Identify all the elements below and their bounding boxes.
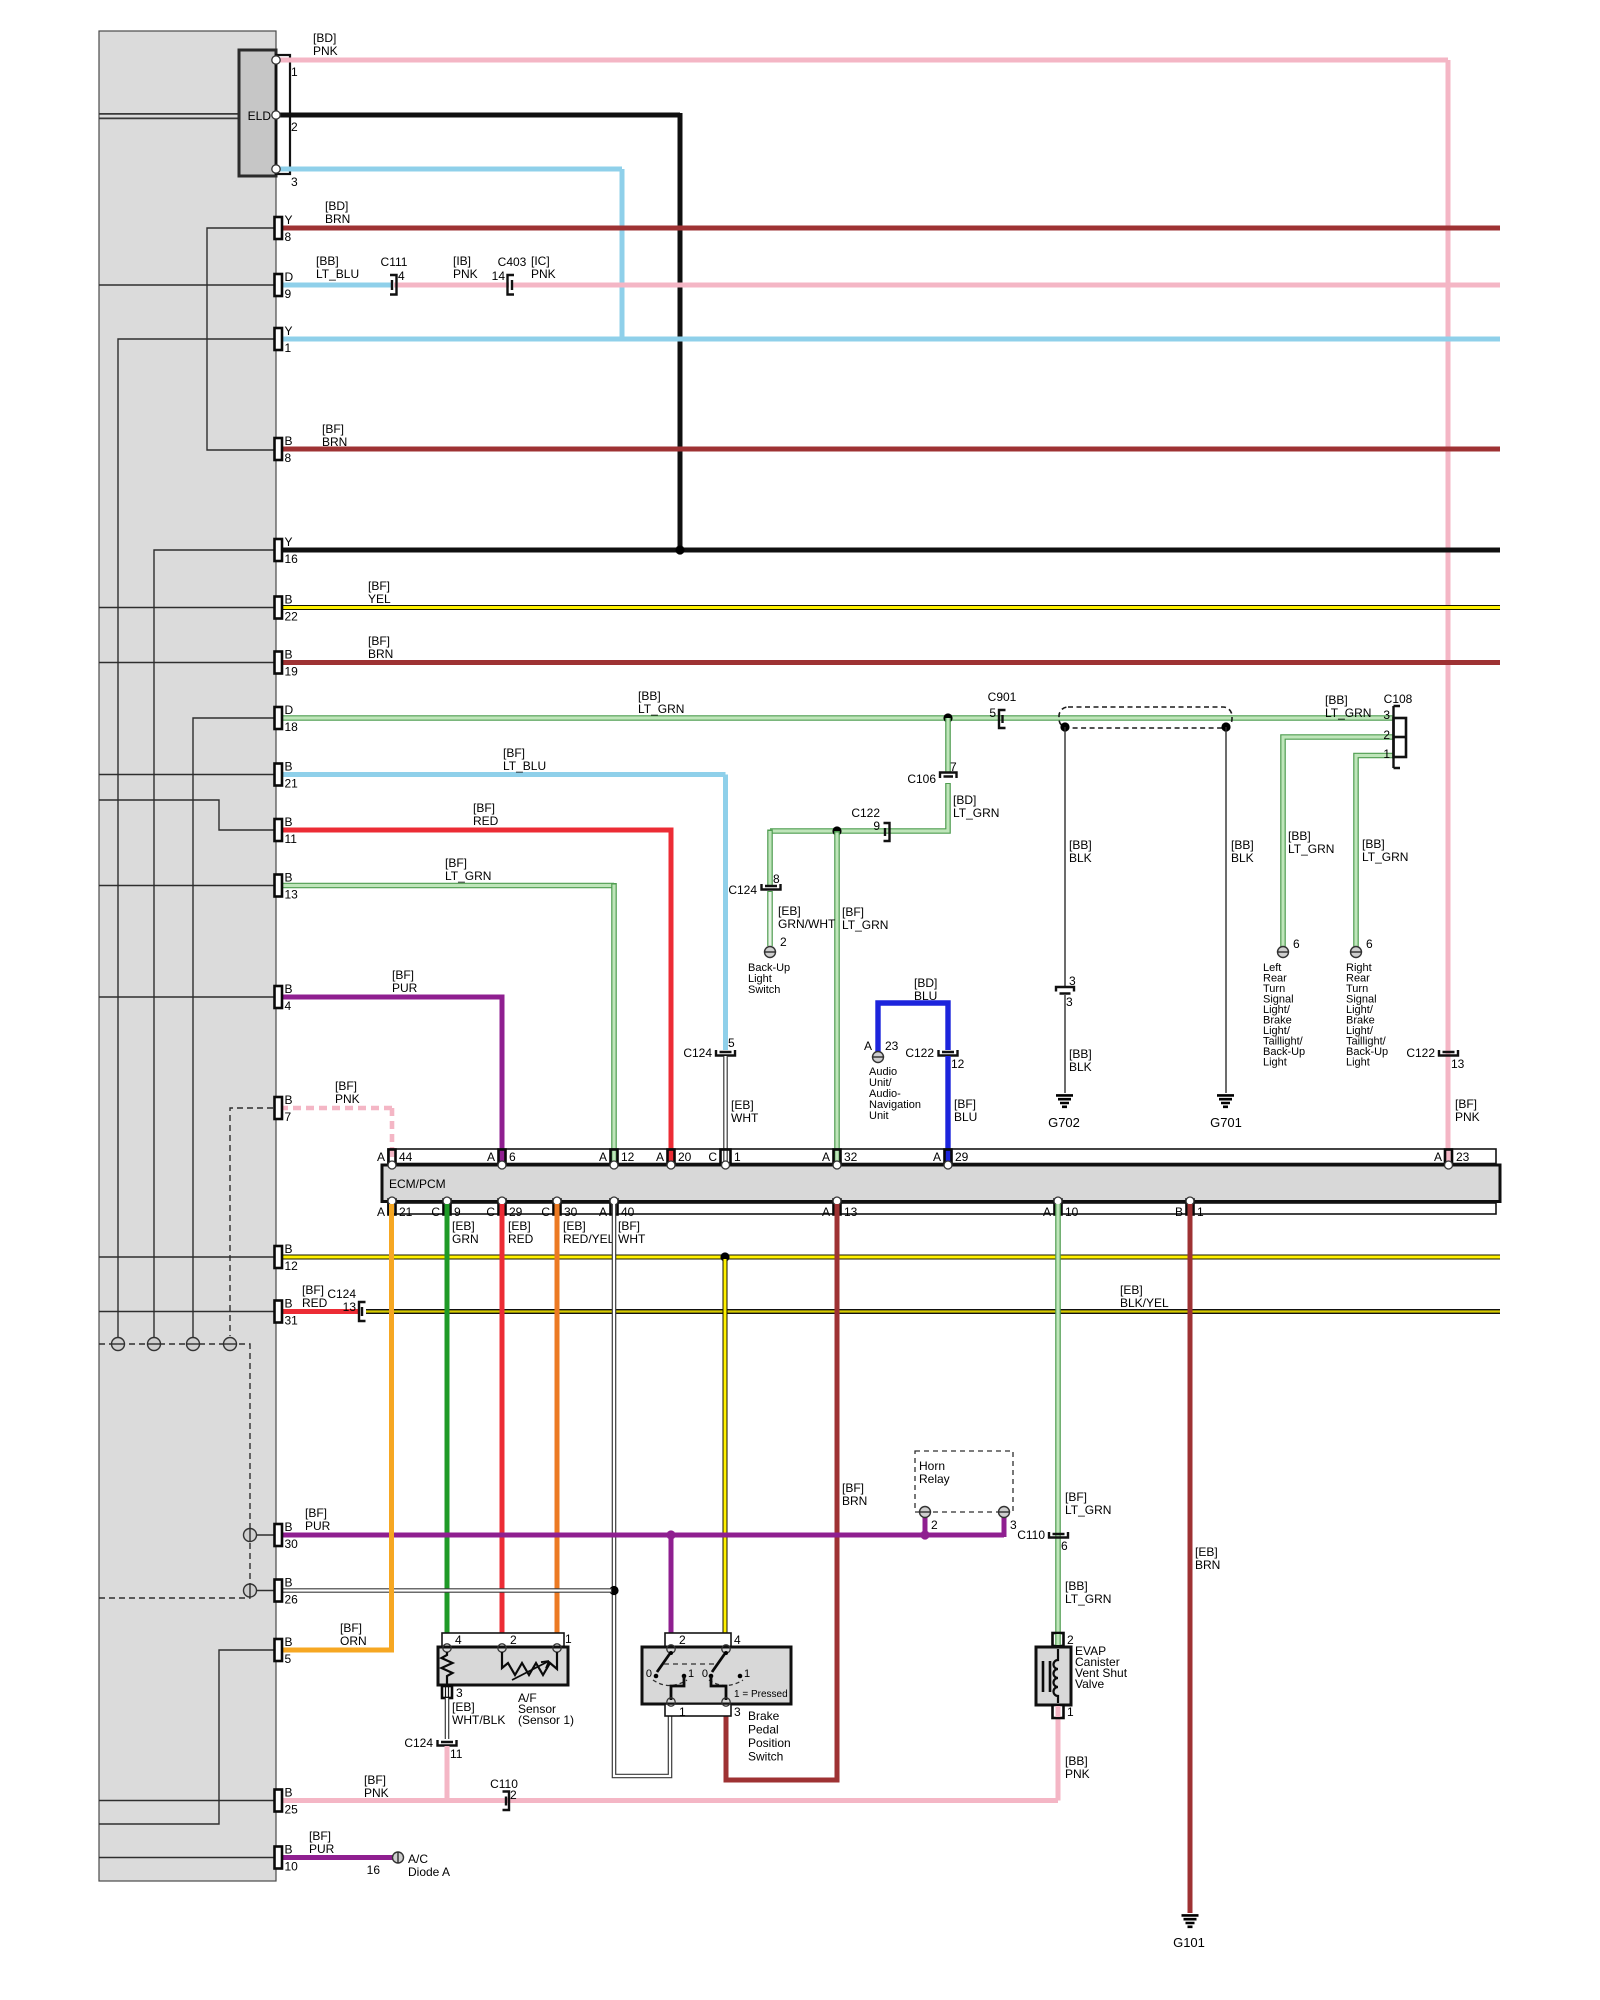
wire [BF] PUR row B30 bbox=[280, 1533, 1004, 1538]
connector C124 pin 13 B31 bbox=[327, 1287, 365, 1321]
switch lever left bbox=[657, 1651, 673, 1672]
Back-Up Light Switch bbox=[748, 962, 790, 996]
svg-text:LT_GRN: LT_GRN bbox=[445, 869, 491, 883]
svg-text:[EB]: [EB] bbox=[452, 1219, 475, 1233]
connector C124 pin 11 bbox=[404, 1736, 462, 1761]
label [BF] RED B31 bbox=[302, 1283, 328, 1310]
ELD pin 1 bbox=[272, 56, 298, 79]
svg-text:C: C bbox=[541, 1205, 550, 1219]
wire [IB] PNK D9 mid bbox=[394, 283, 509, 288]
svg-text:PNK: PNK bbox=[335, 1092, 360, 1106]
wire [BD] BLU audio loop bbox=[878, 1003, 948, 1057]
svg-text:B: B bbox=[285, 1242, 293, 1256]
svg-text:2: 2 bbox=[1383, 728, 1390, 742]
svg-text:7: 7 bbox=[285, 1110, 292, 1124]
svg-text:25: 25 bbox=[285, 1803, 299, 1817]
svg-text:BLK: BLK bbox=[1069, 1060, 1092, 1074]
svg-text:[BF]: [BF] bbox=[954, 1097, 976, 1111]
svg-text:PNK: PNK bbox=[453, 267, 478, 281]
svg-text:18: 18 bbox=[285, 720, 299, 734]
svg-text:[BF]: [BF] bbox=[309, 1829, 331, 1843]
svg-text:6: 6 bbox=[1293, 937, 1300, 951]
wire internal dashed bus row bbox=[99, 1344, 250, 1598]
label [BF] YEL bbox=[368, 579, 391, 606]
pin B11 bbox=[275, 815, 298, 846]
wire [EB] BLK_YEL row B31 bbox=[366, 1309, 1500, 1314]
svg-text:[EB]: [EB] bbox=[731, 1098, 754, 1112]
wire [BF] ORN A21 to B5 bbox=[280, 1204, 392, 1650]
pin A13 bbox=[822, 1197, 858, 1219]
label [BB] BLK left bbox=[1069, 838, 1092, 865]
node terminal A_C diode pin 16 bbox=[367, 1852, 404, 1878]
EVAP pin 2 bbox=[1053, 1633, 1075, 1647]
svg-text:C901: C901 bbox=[988, 690, 1017, 704]
svg-text:9: 9 bbox=[873, 819, 880, 833]
wire [IC] PNK D9 right bbox=[511, 283, 1500, 288]
svg-text:12: 12 bbox=[951, 1057, 965, 1071]
svg-text:[BF]: [BF] bbox=[473, 801, 495, 815]
label [BF] LT_BLU bbox=[503, 746, 546, 773]
svg-text:8: 8 bbox=[285, 230, 292, 244]
svg-text:YEL: YEL bbox=[368, 592, 391, 606]
wire [BF] LT_BLU row B21 bbox=[280, 772, 726, 777]
ECM top connector bar bbox=[388, 1149, 1496, 1164]
connector C108 bbox=[1383, 692, 1412, 768]
A_F sensor pin 3 bbox=[442, 1686, 463, 1700]
label [BF] LT_GRN A10 bbox=[1065, 1490, 1111, 1517]
svg-text:RED: RED bbox=[508, 1232, 534, 1246]
wire PUR stub relay pin3 bbox=[1002, 1516, 1007, 1537]
wire BLK row Y16 bbox=[280, 548, 1500, 553]
label [EB] BRN bbox=[1195, 1545, 1220, 1572]
svg-text:Light: Light bbox=[1263, 1057, 1287, 1069]
svg-text:19: 19 bbox=[285, 665, 299, 679]
svg-text:Switch: Switch bbox=[748, 1750, 783, 1764]
svg-text:[BB]: [BB] bbox=[1069, 838, 1092, 852]
svg-text:1: 1 bbox=[1197, 1205, 1204, 1219]
svg-text:10: 10 bbox=[1065, 1205, 1079, 1219]
wire internal D18 feed bbox=[193, 718, 283, 1337]
wire [BB] BLK to G702 bbox=[1064, 995, 1066, 1093]
svg-text:6: 6 bbox=[1366, 937, 1373, 951]
node terminal horn relay pin 2 bbox=[919, 1507, 938, 1533]
pin B22 bbox=[275, 593, 299, 624]
wire [BF] WHT A40 down bbox=[614, 1204, 670, 1776]
node loop terminal Y1 bbox=[111, 1338, 125, 1351]
svg-text:[BB]: [BB] bbox=[1069, 1047, 1092, 1061]
svg-text:B: B bbox=[285, 1297, 293, 1311]
svg-text:9: 9 bbox=[285, 287, 292, 301]
svg-text:[BB]: [BB] bbox=[638, 689, 661, 703]
svg-text:BLK/YEL: BLK/YEL bbox=[1120, 1296, 1169, 1310]
wire internal B13 feed bbox=[99, 885, 283, 887]
pin B30 bbox=[275, 1520, 299, 1551]
svg-text:1: 1 bbox=[734, 1150, 741, 1164]
wire internal B31 feed bbox=[99, 1311, 283, 1313]
label [BB] PNK bbox=[1065, 1754, 1090, 1781]
svg-text:3: 3 bbox=[734, 1705, 741, 1719]
svg-text:13: 13 bbox=[1451, 1057, 1465, 1071]
svg-text:0: 0 bbox=[646, 1668, 652, 1680]
svg-text:B: B bbox=[285, 1520, 293, 1534]
wire [BB] LT_GRN C108 pin1 branch bbox=[1356, 756, 1393, 948]
svg-text:16: 16 bbox=[367, 1863, 381, 1877]
wire internal B22 feed bbox=[99, 607, 283, 609]
svg-text:C: C bbox=[486, 1205, 495, 1219]
switch lever right bbox=[712, 1651, 728, 1672]
ELD connector bracket bbox=[276, 55, 290, 174]
wire PUR stub relay pin2 bbox=[923, 1516, 928, 1535]
svg-text:C: C bbox=[431, 1205, 440, 1219]
svg-text:B: B bbox=[285, 871, 293, 885]
node terminal audio unit A23 bbox=[864, 1039, 899, 1063]
svg-text:12: 12 bbox=[621, 1150, 635, 1164]
wire [BF] RED row B31 bbox=[280, 1309, 359, 1314]
svg-text:A: A bbox=[487, 1150, 495, 1164]
label [EB] GRN_WHT bbox=[778, 904, 836, 931]
wire internal B25 feed bbox=[99, 1800, 283, 1802]
label [BF] PNK B7 bbox=[335, 1079, 360, 1106]
pin Y8 bbox=[275, 213, 293, 244]
label [BB] BLK right bbox=[1231, 838, 1254, 865]
label [BF] PUR B10 bbox=[309, 1829, 335, 1856]
svg-text:[BF]: [BF] bbox=[322, 422, 344, 436]
label [BF] PUR B4 bbox=[392, 968, 418, 995]
svg-text:Valve: Valve bbox=[1075, 1677, 1104, 1691]
node junction LT_GRN to C106 bbox=[943, 713, 952, 722]
svg-text:B: B bbox=[285, 434, 293, 448]
svg-text:5: 5 bbox=[728, 1036, 735, 1050]
wire LT_BLU ELD pin3 bbox=[278, 167, 622, 172]
svg-text:21: 21 bbox=[285, 777, 299, 791]
wire WHT row B26 bbox=[280, 1588, 612, 1593]
pin B1 bbox=[1175, 1197, 1204, 1219]
node terminal back-up light switch pin 2 bbox=[764, 935, 787, 958]
svg-text:[BB]: [BB] bbox=[1065, 1579, 1088, 1593]
svg-text:12: 12 bbox=[285, 1259, 299, 1273]
pin B5 bbox=[275, 1635, 293, 1666]
label [BB] BLK lower bbox=[1069, 1047, 1092, 1074]
svg-text:Y: Y bbox=[285, 535, 293, 549]
wire YEL junction to switch pin4 bbox=[723, 1259, 728, 1646]
svg-text:4: 4 bbox=[285, 999, 292, 1013]
connector 3-3 inline bbox=[1056, 974, 1076, 1009]
ELD unit box bbox=[239, 50, 276, 176]
svg-text:LT_GRN: LT_GRN bbox=[842, 918, 888, 932]
pin C29 bbox=[486, 1197, 522, 1219]
svg-text:23: 23 bbox=[1456, 1150, 1470, 1164]
resistor heater element bbox=[502, 1652, 557, 1680]
svg-text:Unit: Unit bbox=[869, 1110, 889, 1122]
connector C106 pin 7 bbox=[907, 760, 957, 786]
svg-text:44: 44 bbox=[399, 1150, 413, 1164]
wire [BF] LT_GRN drop to A12 bbox=[611, 883, 617, 1162]
svg-text:B: B bbox=[285, 982, 293, 996]
ECM bottom connector bar bbox=[388, 1203, 1496, 1214]
wire [BD] BRN row Y8 bbox=[280, 226, 1500, 231]
svg-text:31: 31 bbox=[285, 1314, 299, 1328]
wire internal Y1 feed bbox=[118, 339, 283, 1337]
svg-text:1: 1 bbox=[291, 65, 298, 79]
svg-text:10: 10 bbox=[285, 1860, 299, 1874]
svg-text:A: A bbox=[656, 1150, 664, 1164]
node junction YEL B12 bbox=[720, 1252, 729, 1261]
ELD pin 2 bbox=[272, 111, 298, 134]
pin B7 bbox=[275, 1093, 293, 1124]
wire [EB] GRN_WHT drop to C124-8 bbox=[767, 830, 773, 886]
svg-text:29: 29 bbox=[509, 1205, 523, 1219]
resistor sensing element bbox=[442, 1652, 453, 1684]
label [BF] ORN bbox=[340, 1621, 367, 1648]
wire [BF] BRN A13 down bbox=[726, 1204, 837, 1780]
svg-text:3: 3 bbox=[1066, 995, 1073, 1009]
svg-text:Position: Position bbox=[748, 1736, 791, 1750]
label [EB] WHT_BLK bbox=[452, 1700, 505, 1727]
label [BD] BRN bbox=[325, 199, 350, 226]
A_F sensor top bar bbox=[442, 1633, 564, 1647]
svg-text:[EB]: [EB] bbox=[563, 1219, 586, 1233]
svg-text:[BF]: [BF] bbox=[618, 1219, 640, 1233]
A_F sensor body bbox=[438, 1647, 568, 1685]
brake switch pin 4 bbox=[722, 1633, 741, 1653]
wire internal B7 dashed link bbox=[230, 1108, 283, 1336]
label [BF] BRN B19 bbox=[368, 634, 393, 661]
svg-text:3: 3 bbox=[1069, 974, 1076, 988]
svg-text:[EB]: [EB] bbox=[508, 1219, 531, 1233]
wire PNK C124-11 to B25 row bbox=[445, 1746, 450, 1801]
wire [EB] RED C29 to sensor pin2 bbox=[500, 1204, 505, 1646]
node terminal left rear lamp pin 6 bbox=[1277, 937, 1300, 958]
svg-text:13: 13 bbox=[844, 1205, 858, 1219]
svg-text:A: A bbox=[377, 1205, 385, 1219]
svg-text:ORN: ORN bbox=[340, 1634, 367, 1648]
wire internal B26 stub bbox=[256, 1590, 283, 1592]
svg-text:1: 1 bbox=[688, 1668, 694, 1680]
connector C122 pin 13 bbox=[1406, 1046, 1464, 1071]
svg-text:5: 5 bbox=[989, 706, 996, 720]
wire BLK vertical to Y16 row bbox=[678, 113, 683, 550]
svg-text:4: 4 bbox=[734, 1633, 741, 1647]
wire [BD] PNK vertical to A23 bbox=[1446, 60, 1451, 1161]
pin C1 bbox=[708, 1150, 741, 1170]
svg-text:[BF]: [BF] bbox=[842, 905, 864, 919]
svg-text:3: 3 bbox=[1010, 1518, 1017, 1532]
svg-text:[BB]: [BB] bbox=[1362, 837, 1385, 851]
pin B31 bbox=[275, 1297, 299, 1328]
pin A6 bbox=[487, 1150, 516, 1170]
svg-text:B: B bbox=[285, 1843, 293, 1857]
svg-text:B: B bbox=[285, 648, 293, 662]
A_C Diode A label bbox=[408, 1852, 450, 1879]
svg-text:1: 1 bbox=[679, 1705, 686, 1719]
svg-text:C: C bbox=[708, 1150, 717, 1164]
svg-text:ELD: ELD bbox=[248, 109, 272, 123]
svg-text:C108: C108 bbox=[1384, 692, 1413, 706]
svg-text:LT_GRN: LT_GRN bbox=[1325, 706, 1371, 720]
node terminal right rear lamp pin 6 bbox=[1350, 937, 1373, 958]
svg-text:BRN: BRN bbox=[1195, 1558, 1220, 1572]
wire [BB] LT_GRN row D18 bbox=[280, 715, 1393, 721]
wire internal B5 feed bbox=[99, 1650, 283, 1824]
wire internal B21 feed bbox=[99, 774, 283, 776]
svg-text:C122: C122 bbox=[905, 1046, 934, 1060]
node junction BLK tap left bbox=[1060, 722, 1069, 731]
svg-text:Brake: Brake bbox=[748, 1709, 780, 1723]
svg-text:Light: Light bbox=[1346, 1057, 1370, 1069]
connector C110 pin 6 bbox=[1017, 1528, 1068, 1553]
A_F sensor pin 2 bbox=[498, 1633, 517, 1652]
svg-text:D: D bbox=[285, 703, 294, 717]
pin A40 bbox=[599, 1197, 635, 1219]
svg-text:GRN/WHT: GRN/WHT bbox=[778, 917, 836, 931]
svg-text:9: 9 bbox=[454, 1205, 461, 1219]
svg-text:BLK: BLK bbox=[1231, 851, 1254, 865]
svg-text:B: B bbox=[285, 815, 293, 829]
svg-text:A: A bbox=[933, 1150, 941, 1164]
Audio Unit label bbox=[869, 1066, 921, 1122]
pin B25 bbox=[275, 1786, 299, 1817]
pin A32 bbox=[822, 1150, 858, 1170]
svg-text:B: B bbox=[285, 1093, 293, 1107]
label [BF] LT_GRN B13 bbox=[445, 856, 491, 883]
svg-text:1: 1 bbox=[285, 341, 292, 355]
svg-text:A: A bbox=[599, 1150, 607, 1164]
connector C901 pin 5 bbox=[988, 690, 1017, 728]
svg-text:Switch: Switch bbox=[748, 984, 780, 996]
svg-text:1: 1 bbox=[1067, 1705, 1074, 1719]
svg-text:13: 13 bbox=[343, 1300, 357, 1314]
wire ORN crossing overlays bbox=[389, 1528, 394, 1597]
svg-text:BRN: BRN bbox=[322, 435, 347, 449]
svg-text:2: 2 bbox=[679, 1633, 686, 1647]
svg-text:4: 4 bbox=[455, 1633, 462, 1647]
wire PUR drop to switch pin2 bbox=[669, 1535, 674, 1646]
svg-text:[BF]: [BF] bbox=[368, 579, 390, 593]
svg-text:3: 3 bbox=[1383, 708, 1390, 722]
label [BD] PNK bbox=[313, 31, 338, 58]
wire [BD] PNK ELD pin1 bbox=[278, 58, 1448, 63]
svg-text:[BF]: [BF] bbox=[340, 1621, 362, 1635]
svg-text:3: 3 bbox=[456, 1686, 463, 1700]
dashed harness box bbox=[1059, 707, 1232, 728]
wire internal B30 stub bbox=[256, 1534, 283, 1536]
svg-text:1: 1 bbox=[565, 1632, 572, 1646]
label [BF] PUR B30 bbox=[305, 1506, 331, 1533]
svg-text:LT_GRN: LT_GRN bbox=[638, 702, 684, 716]
svg-text:C122: C122 bbox=[851, 806, 880, 820]
svg-text:23: 23 bbox=[885, 1039, 899, 1053]
ELD pin 3 bbox=[272, 165, 298, 189]
wire [BF] LT_GRN drop to A32 bbox=[834, 831, 840, 1162]
svg-text:BLU: BLU bbox=[954, 1110, 977, 1124]
wire [EB] WHT to C1 bbox=[723, 1056, 728, 1150]
label [BF] PNK A23 bbox=[1455, 1097, 1480, 1124]
svg-text:WHT: WHT bbox=[731, 1111, 759, 1125]
pin B4 bbox=[275, 982, 293, 1013]
wire [EB] GRN_WHT to backup switch bbox=[767, 891, 773, 946]
label [BF] PNK B25 bbox=[364, 1773, 389, 1800]
svg-text:[IB]: [IB] bbox=[453, 254, 471, 268]
svg-text:[BF]: [BF] bbox=[335, 1079, 357, 1093]
label [EB] WHT bbox=[731, 1098, 759, 1125]
wire [BF] PNK dashed row B7 bbox=[280, 1106, 392, 1111]
EVAP label bbox=[1075, 1644, 1128, 1691]
svg-text:B: B bbox=[285, 593, 293, 607]
svg-text:1 = Pressed: 1 = Pressed bbox=[734, 1689, 788, 1700]
connector C122 pin 9 bbox=[851, 806, 889, 841]
svg-text:8: 8 bbox=[285, 451, 292, 465]
ground G702 bbox=[1048, 1095, 1080, 1130]
wire internal B11 feed bbox=[99, 800, 283, 830]
node junction BLK tap right bbox=[1221, 722, 1230, 731]
svg-text:[BB]: [BB] bbox=[316, 254, 339, 268]
brake switch top bar bbox=[665, 1633, 731, 1647]
svg-text:[EB]: [EB] bbox=[778, 904, 801, 918]
svg-text:[IC]: [IC] bbox=[531, 254, 550, 268]
svg-text:[BD]: [BD] bbox=[953, 793, 976, 807]
switch contact arc left bbox=[653, 1680, 687, 1686]
svg-text:WHT/BLK: WHT/BLK bbox=[452, 1713, 505, 1727]
svg-text:PNK: PNK bbox=[1455, 1110, 1480, 1124]
label [EB] RED_YEL bbox=[563, 1219, 615, 1246]
svg-text:BLK: BLK bbox=[1069, 851, 1092, 865]
svg-text:PNK: PNK bbox=[313, 44, 338, 58]
svg-text:C111: C111 bbox=[381, 255, 408, 269]
pin B19 bbox=[275, 648, 299, 679]
svg-text:C124: C124 bbox=[404, 1736, 433, 1750]
wire BLK ELD pin2 bbox=[278, 113, 680, 118]
svg-text:6: 6 bbox=[1061, 1539, 1068, 1553]
svg-text:Diode A: Diode A bbox=[408, 1865, 450, 1879]
svg-text:GRN: GRN bbox=[452, 1232, 479, 1246]
pin B13 bbox=[275, 871, 299, 902]
node loop terminal B30 bbox=[244, 1528, 257, 1542]
connector C111 pin 4 bbox=[381, 255, 408, 295]
brake switch pin 2 bbox=[667, 1633, 686, 1653]
label [BD] LT_GRN bbox=[953, 793, 999, 820]
A_F sensor pin 4 bbox=[443, 1633, 462, 1652]
svg-text:2: 2 bbox=[1067, 1633, 1074, 1647]
label [BF] BRN A13 bbox=[842, 1481, 867, 1508]
node loop terminal B7 bbox=[223, 1338, 237, 1351]
pin A21 bbox=[377, 1197, 413, 1219]
svg-text:LT_GRN: LT_GRN bbox=[1065, 1592, 1111, 1606]
wire YEL row B12 bbox=[280, 1255, 1500, 1260]
svg-text:[BB]: [BB] bbox=[1325, 693, 1348, 707]
label [BB] LT_BLU bbox=[316, 254, 359, 281]
svg-text:PNK: PNK bbox=[364, 1786, 389, 1800]
pin C30 bbox=[541, 1197, 577, 1219]
wire ELD supply double line bbox=[99, 114, 239, 119]
svg-text:B: B bbox=[285, 1635, 293, 1649]
label [BB] LT_GRN D18 bbox=[638, 689, 684, 716]
node junction BLK Y16 bbox=[675, 545, 684, 554]
svg-text:C124: C124 bbox=[327, 1287, 356, 1301]
svg-text:BRN: BRN bbox=[368, 647, 393, 661]
svg-text:4: 4 bbox=[398, 269, 405, 283]
wire [BF] PUR row B10 bbox=[280, 1855, 394, 1860]
brake switch bottom bar bbox=[665, 1704, 731, 1716]
svg-text:BLU: BLU bbox=[914, 989, 937, 1003]
svg-text:8: 8 bbox=[773, 872, 780, 886]
svg-text:[BF]: [BF] bbox=[302, 1283, 324, 1297]
svg-text:RED: RED bbox=[302, 1296, 328, 1310]
svg-text:C106: C106 bbox=[907, 772, 936, 786]
svg-text:BRN: BRN bbox=[325, 212, 350, 226]
svg-text:C110: C110 bbox=[1017, 1528, 1045, 1542]
wire internal B12 feed bbox=[99, 1256, 283, 1258]
EVAP pin 1 bbox=[1053, 1705, 1075, 1719]
